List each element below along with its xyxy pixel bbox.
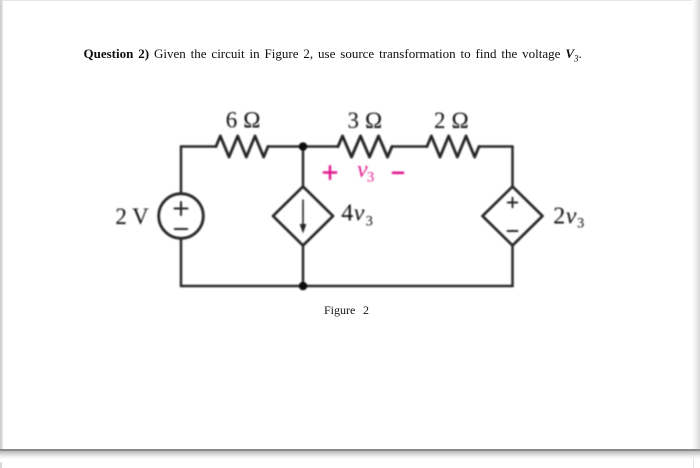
svg-text:3: 3 [366,213,373,229]
svg-text:2: 2 [553,204,565,230]
svg-text:3 Ω: 3 Ω [348,108,383,133]
svg-text:3: 3 [577,216,584,232]
svg-text:v: v [566,204,577,230]
svg-text:2 V: 2 V [115,204,149,229]
svg-text:2 Ω: 2 Ω [434,108,469,133]
svg-text:v: v [354,201,365,227]
svg-text:3: 3 [367,170,375,186]
svg-text:6 Ω: 6 Ω [226,108,261,133]
svg-text:4: 4 [341,201,353,227]
